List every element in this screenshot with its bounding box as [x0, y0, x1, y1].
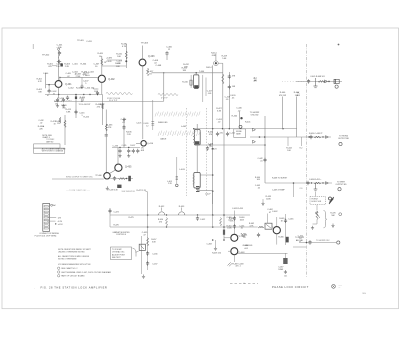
reactance chain wire — [147, 192, 149, 270]
capacitor on x106 — [105, 133, 108, 137]
resistor R-451 — [314, 182, 321, 184]
adjust tool icon — [329, 197, 334, 204]
svg-text:C-469 47 MMF: C-469 47 MMF — [272, 190, 285, 192]
shield boundary left — [185, 108, 187, 196]
IF can T-400 base blob — [194, 85, 198, 89]
label C-455 — [142, 232, 148, 237]
boost line — [303, 80, 342, 82]
junction x76 — [75, 94, 77, 96]
capacitor C-445 — [307, 79, 310, 83]
junction bus x212 — [212, 128, 213, 129]
label C-420 — [230, 95, 236, 100]
svg-text:SEE SWEEP BD: SEE SWEEP BD — [122, 191, 136, 193]
capacitor C-436 — [127, 149, 130, 153]
svg-text:GATE: GATE — [236, 132, 242, 135]
wire C-406 stub — [166, 56, 168, 60]
box Z-401 top lead — [267, 214, 269, 224]
wire T-401 to T-402 — [196, 145, 198, 173]
label left of x265 b — [255, 185, 260, 189]
resistor R-457 — [147, 238, 149, 247]
transformer T-402 can — [194, 173, 200, 189]
label R-412x dark — [83, 72, 90, 77]
T-400 slug — [190, 80, 192, 85]
svg-text:10K: 10K — [117, 56, 121, 58]
ground C-435 — [118, 154, 121, 158]
transformer T-402 windings — [193, 175, 195, 184]
svg-text:TP-401: TP-401 — [77, 40, 84, 42]
capacitor C-435 — [118, 149, 121, 153]
transistor Q-405 — [115, 164, 122, 171]
svg-text:R-413: R-413 — [76, 88, 83, 90]
hatch mark near Q-408 — [228, 262, 233, 266]
junction rail bottom b — [223, 239, 225, 241]
AFC branch vertical — [264, 116, 266, 183]
label R-423b — [51, 121, 57, 125]
capacitor C-411 — [62, 98, 65, 102]
reactance rail — [285, 214, 287, 245]
transformer T-401 can — [194, 130, 200, 146]
wire Z-401 to Q-409 — [272, 226, 273, 228]
ground near C-411 — [122, 118, 125, 122]
left dashed mark — [230, 282, 258, 284]
svg-text:470 .1: 470 .1 — [235, 266, 240, 268]
svg-text:C-450 R-451 +: C-450 R-451 + — [309, 179, 322, 181]
interlock socket J-401 — [43, 204, 50, 232]
svg-text:TP-403: TP-403 — [141, 43, 149, 45]
input network vertical — [45, 73, 47, 89]
svg-text:ADJUST POINT: ADJUST POINT — [112, 253, 126, 256]
clipper bus — [112, 147, 140, 149]
svg-text:2.2K: 2.2K — [65, 66, 70, 68]
svg-text:5.6K: 5.6K — [222, 58, 227, 60]
transformer T-402 label — [179, 169, 185, 171]
AFC line — [250, 136, 307, 138]
transistor Q-404 outline — [214, 61, 219, 66]
divider wire x65 — [64, 115, 66, 145]
svg-text:WITH VTVM TO CHASSIS: WITH VTVM TO CHASSIS — [42, 150, 64, 153]
transistor Q-401 — [55, 81, 62, 88]
svg-text:R-440: R-440 — [232, 116, 238, 118]
label R-445 — [253, 78, 257, 83]
resistor R-433 label — [107, 124, 114, 129]
junction AFC — [264, 136, 266, 138]
vertical x293 drop — [293, 183, 295, 197]
junction horiz osc link — [306, 242, 308, 244]
sync input wire — [52, 178, 104, 180]
svg-text:T-400: T-400 — [199, 71, 205, 73]
label R-402 input — [37, 79, 43, 83]
svg-text:.05: .05 — [209, 146, 212, 148]
divider rail R-422 — [228, 72, 230, 129]
label C-416 — [79, 113, 84, 118]
junction rails y227 b — [223, 226, 225, 228]
svg-text:C-427: C-427 — [205, 194, 211, 196]
resistor R-414 label — [211, 52, 217, 57]
svg-text:R-452: R-452 — [159, 206, 165, 208]
capacitor C-401 — [58, 51, 61, 55]
svg-text:C-456: C-456 — [152, 254, 157, 256]
B+ feed vertical x76 — [75, 95, 77, 119]
pot R-452 wiper — [161, 208, 163, 211]
dash dot a — [243, 283, 244, 284]
label C-405 — [65, 73, 71, 78]
eyelet E-1 — [176, 184, 179, 187]
ground C-467 — [284, 270, 287, 274]
svg-text:C-459 R-458: C-459 R-458 — [232, 208, 243, 210]
capacitor C-402b — [57, 60, 61, 63]
connector eyelet P-5 — [337, 241, 340, 244]
label R-435 — [153, 60, 159, 65]
Q-410 type label — [141, 148, 144, 153]
label R-415 — [66, 109, 72, 114]
label R-436 — [126, 132, 132, 137]
junction bus x283 — [282, 128, 283, 129]
capacitor C-436b — [132, 149, 135, 153]
shielded cable hatching upper — [155, 112, 200, 117]
svg-text:470: 470 — [209, 134, 212, 136]
eyelet near R-470 — [339, 213, 342, 216]
burst takeoff line — [265, 182, 332, 184]
svg-text:2.2K: 2.2K — [127, 134, 132, 136]
junction boost — [328, 81, 330, 83]
svg-text:R-450 C-448 2T: R-450 C-448 2T — [309, 133, 323, 135]
socket pin ticks — [44, 206, 48, 229]
svg-text:C-421: C-421 — [230, 133, 236, 135]
svg-text:47: 47 — [299, 241, 301, 243]
junction phase det left — [147, 226, 149, 228]
capacitor on rail b — [228, 85, 231, 89]
svg-text:R-430A: R-430A — [38, 125, 45, 128]
svg-text:OUTPUT BD: OUTPUT BD — [338, 138, 350, 140]
potentiometer R-452 arc — [159, 212, 165, 215]
diode D-402 — [253, 140, 256, 143]
wire branch R-415 — [58, 95, 60, 99]
waveform sketch W-2 — [158, 94, 178, 96]
capacitor C-440 label — [236, 108, 242, 113]
junction Q-401 emitter — [58, 94, 59, 95]
junction R-413 — [89, 94, 90, 95]
svg-text:R-453: R-453 — [179, 206, 185, 208]
resistor R-409 — [101, 59, 103, 66]
resistor R-428b — [220, 218, 222, 227]
junction keyed line — [209, 144, 210, 145]
mark above dash line — [338, 44, 340, 46]
Q-407 base wire — [224, 237, 231, 239]
wire T-402 feed — [200, 174, 212, 176]
svg-text:OUTPUT BD: OUTPUT BD — [336, 184, 348, 186]
svg-text:141: 141 — [284, 276, 287, 278]
svg-text:R-439 3.3K: R-439 3.3K — [109, 190, 119, 192]
wire Q-405 base — [117, 148, 119, 165]
svg-text:C-431: C-431 — [86, 41, 92, 43]
panel boundary dash-dot — [306, 44, 308, 277]
svg-text:C-425: C-425 — [136, 122, 141, 124]
label 4.5MC — [254, 77, 258, 82]
junction chain1 b — [322, 136, 323, 137]
svg-text:12: 12 — [146, 125, 148, 127]
waveform sketch W-1 — [106, 92, 132, 94]
label col x240 b — [241, 233, 247, 238]
test point eyelet TP-402 — [58, 48, 60, 50]
R-470 bottom — [316, 220, 318, 225]
crystal Y-401 — [139, 244, 145, 250]
transistor Q-406 — [104, 173, 110, 179]
resistor R-454 — [166, 218, 168, 227]
resistor R-470 — [316, 211, 318, 220]
left margin tick — [32, 44, 34, 49]
svg-text:L-401: L-401 — [72, 64, 78, 66]
resistor R-444 label — [286, 148, 292, 153]
horiz hold box top lead — [315, 192, 317, 197]
svg-text:C-445 R-448 101: C-445 R-448 101 — [310, 76, 325, 78]
junction rail bottom a — [212, 239, 214, 241]
AFC out line — [293, 246, 306, 248]
wire Q-405 to Q-406 — [110, 170, 116, 173]
rail R-446 — [282, 97, 284, 129]
crystal Y-401 plate — [141, 246, 144, 249]
wire T-402 out — [197, 190, 212, 192]
svg-text:C-435: C-435 — [122, 145, 127, 147]
svg-text:R-416: R-416 — [182, 81, 188, 83]
diode CR-402 — [326, 136, 329, 139]
junction C-452 — [197, 214, 198, 215]
bus line y72.8 — [152, 72, 223, 74]
resistor R-426 — [101, 103, 103, 109]
electrolytic C-467 — [283, 258, 287, 264]
wire bend into reactance chain — [146, 191, 148, 193]
label R-405 150 — [54, 101, 59, 106]
svg-text:R-2: R-2 — [300, 147, 303, 149]
junction clipper 1 — [119, 147, 120, 148]
ground horiz hold b — [331, 224, 334, 228]
note bullet 3 — [58, 275, 60, 277]
dark blob near Q-401 top — [60, 63, 63, 66]
svg-text:AMP BD: AMP BD — [46, 141, 54, 144]
note bullet 2 — [58, 271, 60, 273]
hook lead from C-401 — [58, 55, 59, 59]
transistor Q-408 — [231, 248, 238, 255]
capacitor C-447 — [309, 135, 312, 139]
wire C-401 to Q-401 base — [58, 50, 60, 80]
resistor R-438 — [119, 178, 126, 180]
resistor R-409 label — [97, 53, 103, 58]
label R-424b — [80, 97, 85, 102]
label R-429b — [222, 55, 228, 60]
chain2 right label — [336, 181, 348, 186]
svg-text:HOLD 50K: HOLD 50K — [312, 201, 322, 203]
svg-text:L-402: L-402 — [181, 126, 187, 128]
capacitor C-457 — [146, 261, 149, 265]
T-400 left lead — [190, 75, 192, 88]
svg-text:.01: .01 — [240, 228, 243, 230]
svg-text:FIG. 28 THE STATION LOCK: FIG. 28 THE STATION LOCK AMPLIFIER — [41, 285, 108, 289]
capacitor C-461 — [233, 224, 236, 228]
capacitor on rail a — [228, 75, 231, 79]
capacitor C-406 — [165, 51, 168, 55]
label C-402 .02 — [51, 91, 56, 96]
svg-text:R-404: R-404 — [81, 64, 88, 66]
pot R-453 label — [179, 206, 185, 208]
capacitor C-434 label — [121, 119, 128, 124]
junction AFC 2 — [259, 136, 261, 138]
socket lead 3 dot — [55, 223, 56, 224]
Q-409 collector stub — [276, 217, 278, 227]
svg-text:100K: 100K — [227, 228, 232, 230]
stub C-406 input — [48, 85, 50, 91]
svg-text:C-462: C-462 — [272, 211, 278, 213]
boxed note N4 — [111, 247, 132, 260]
T-400 second lead — [205, 78, 207, 97]
wire Q-404 emitter — [212, 65, 214, 215]
wire T-401 top lead — [196, 124, 198, 132]
Q-408 bottom labels — [233, 263, 244, 267]
stub C-407 — [81, 77, 83, 85]
C-467 label — [278, 266, 284, 271]
svg-text:R-437: R-437 — [130, 145, 135, 147]
R-470 tie left — [313, 223, 318, 225]
svg-text:PART OF CIRCUIT BOARD: PART OF CIRCUIT BOARD — [61, 275, 85, 278]
svg-text:C-452: C-452 — [200, 219, 205, 221]
junction small Q-404 can — [215, 62, 217, 64]
top label C-431 — [86, 41, 92, 43]
label TO HORIZ OSC BD — [250, 112, 260, 117]
transformer T-401 windings — [193, 134, 195, 143]
svg-text:NOTED OTHERWISE: NOTED OTHERWISE — [58, 259, 77, 261]
left label pair a — [38, 120, 43, 125]
top label x65 — [61, 105, 66, 110]
label right of C-460 — [239, 217, 245, 221]
svg-text:PHASE LOCK CIRCUIT: PHASE LOCK CIRCUIT — [272, 285, 309, 289]
label R-465 — [279, 218, 284, 223]
svg-text:47: 47 — [47, 95, 49, 97]
comp marks x152.8 — [151, 122, 154, 126]
label R-446 47K 1W — [279, 92, 286, 97]
brace to chain — [133, 248, 139, 257]
bias wire x124 — [123, 118, 125, 148]
top label TP-401 — [77, 40, 84, 42]
label R-447 — [294, 92, 300, 97]
agc sub vertical — [109, 208, 111, 227]
capacitor C-421 — [226, 132, 229, 136]
svg-text:LAST NUMERAL USED C-467, R: LAST NUMERAL USED C-467, R-470 ON THIS D… — [61, 271, 111, 274]
cap C-444 tbar — [314, 85, 318, 87]
bus line B+ distribution — [194, 128, 297, 130]
corner Q-404 to rail — [218, 62, 223, 64]
svg-text:C-400: C-400 — [43, 73, 48, 75]
resistor R-431 — [64, 120, 66, 128]
wire Q-402 emitter down — [101, 82, 103, 94]
label TP-405 — [297, 93, 300, 98]
junction rails y227 a — [212, 226, 214, 228]
label col x240 c — [243, 245, 249, 250]
junction bus x222 — [222, 128, 223, 129]
T-401 base blob — [195, 141, 199, 144]
resistor R-417 label — [148, 71, 155, 76]
junction rails y215 b — [223, 214, 225, 216]
resistor R-430 — [125, 51, 127, 59]
junction Q-401 collector — [59, 77, 60, 78]
svg-text:SHIELDED: SHIELDED — [158, 122, 168, 124]
svg-text:CONTROLS: CONTROLS — [116, 234, 127, 236]
svg-text:Q-405: Q-405 — [125, 167, 132, 169]
svg-text:R-475: R-475 — [129, 217, 134, 219]
svg-text:C-414 100: C-414 100 — [85, 88, 96, 90]
wire into Q-401 base — [46, 84, 56, 86]
svg-text:405: 405 — [297, 95, 300, 97]
svg-text:6.8K: 6.8K — [66, 112, 71, 114]
net label +250V — [99, 104, 106, 106]
junction rail y191 — [212, 190, 214, 192]
Q-408 emitter down — [233, 255, 235, 262]
phase det line — [110, 226, 257, 228]
capacitor C-470 — [308, 240, 311, 244]
wire Q-401 emitter down — [58, 87, 60, 94]
socket lead 2 — [47, 220, 56, 222]
resistor R-412a label — [182, 68, 188, 73]
supply wire V1 — [125, 44, 127, 68]
svg-text:270K: 270K — [76, 76, 81, 78]
horiz blanking line long — [282, 81, 304, 83]
potentiometer R-453 arc — [179, 212, 185, 215]
junction R-454 top — [166, 214, 167, 215]
svg-text:C-458: C-458 — [207, 244, 212, 246]
junction C-414 — [97, 94, 98, 95]
svg-text:6.8K: 6.8K — [212, 55, 217, 57]
label C-465 — [288, 218, 293, 220]
transistor Q-407 — [231, 234, 238, 241]
svg-text:Q-402: Q-402 — [108, 79, 115, 81]
R-455 stub — [262, 199, 264, 201]
IF output rail 1 — [223, 129, 225, 241]
divider rail R-420 — [222, 63, 224, 129]
transistor Q-403 — [139, 59, 146, 66]
svg-text:R-466: R-466 — [278, 237, 283, 239]
capacitor C-410 — [56, 98, 59, 102]
svg-text:.047: .047 — [228, 220, 232, 222]
caption symbol — [332, 285, 336, 289]
main B+ vertical — [105, 110, 107, 173]
svg-text:4.7K: 4.7K — [122, 46, 127, 48]
cap C-451 lead — [315, 183, 317, 189]
junction base network — [48, 84, 50, 86]
label C-442 — [257, 158, 262, 162]
label right of T-401 a — [208, 132, 213, 137]
svg-text:408: 408 — [141, 150, 144, 152]
label R-416 — [182, 81, 188, 83]
capacitor C-434 — [122, 125, 125, 129]
junction bus x229 — [229, 128, 230, 129]
svg-text:R-441: R-441 — [245, 122, 251, 124]
svg-text:.05: .05 — [257, 187, 260, 189]
resistor R-455 label — [266, 196, 272, 201]
capacitor C-401 label — [57, 45, 64, 50]
label R-426 — [96, 104, 102, 109]
label C-410 — [58, 98, 64, 103]
svg-text:.1: .1 — [81, 115, 83, 117]
junction noise gate — [240, 117, 242, 119]
labels left column — [242, 235, 248, 240]
cap C-451 tbar — [314, 188, 318, 190]
wire drop to AFC — [212, 191, 214, 205]
label right of T-401 b — [208, 144, 213, 149]
small coil L-404 label — [166, 47, 173, 52]
svg-text:10MF: 10MF — [278, 269, 284, 271]
svg-text:OSC BD: OSC BD — [251, 114, 259, 116]
junction T-402 feed — [212, 174, 214, 176]
rail label R-427 — [216, 108, 222, 113]
resistor R-430 label — [121, 44, 128, 49]
capacitor C-414 — [96, 91, 99, 95]
